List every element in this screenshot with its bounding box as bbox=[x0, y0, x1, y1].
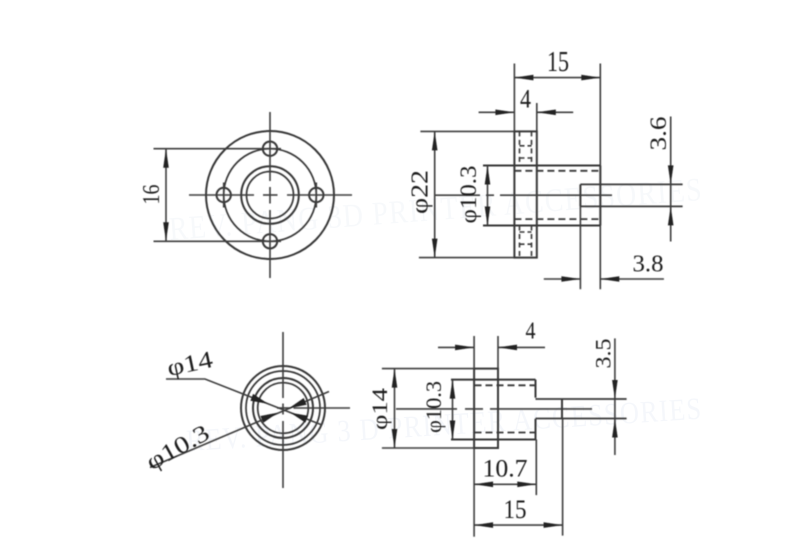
lower side view pin top line bbox=[536, 398, 627, 400]
lower side view body bottom edge bbox=[451, 439, 536, 441]
dim 4 extension line bbox=[536, 103, 538, 131]
front view mounting hole top bbox=[263, 142, 277, 156]
dim 4b arrow left bbox=[455, 345, 474, 351]
lower side view collar left face extension bbox=[473, 336, 475, 369]
side view bore hidden line top bbox=[514, 170, 600, 172]
svg-text:φ22: φ22 bbox=[407, 170, 433, 214]
dim 4 arrow left bbox=[495, 110, 514, 116]
lower view vertical centerline bbox=[282, 332, 284, 398]
lower side view body top edge bbox=[451, 379, 536, 381]
front view mounting hole bottom bbox=[263, 234, 277, 248]
phi10.3 leader arrow a bbox=[260, 413, 278, 423]
dim phi10.3b dimension line bbox=[452, 380, 454, 440]
front view mounting hole right bbox=[309, 188, 323, 202]
dim 15 left extension bbox=[513, 64, 515, 132]
dim 3.5 arrow up bbox=[612, 419, 618, 438]
dim phi14 arrow up bbox=[392, 369, 398, 388]
dim 3.8 dimension line bbox=[544, 278, 581, 280]
dim 15b arrow left bbox=[474, 522, 493, 528]
front view body circle (phi10.3) bbox=[241, 166, 299, 224]
lower view horizontal centerline bbox=[277, 407, 291, 409]
dim 15 arrow left bbox=[514, 75, 533, 81]
dim phi14 arrow down bbox=[392, 429, 398, 448]
dim 3.5 dimension line bbox=[614, 338, 616, 455]
dim phi22 arrow down bbox=[432, 239, 438, 258]
dim phi22 top extension bbox=[420, 130, 514, 132]
dim 10.7 dimension line bbox=[474, 483, 536, 485]
lower front view chamfer circle bbox=[246, 371, 320, 445]
side view flange rectangle bbox=[514, 131, 536, 257]
dim phi22 dimension line bbox=[434, 131, 436, 257]
front view mounting hole left bbox=[217, 188, 231, 202]
side view notch end face bbox=[579, 184, 581, 206]
svg-text:φ10.3: φ10.3 bbox=[456, 166, 481, 224]
side view centerline bbox=[435, 194, 480, 196]
dim 3.6 arrow down bbox=[668, 165, 674, 184]
dim 10.7 arrow right bbox=[517, 482, 536, 488]
lower front view thread circle bbox=[258, 383, 309, 434]
dim 4 dimension line bbox=[479, 111, 515, 113]
leader line phi14 bbox=[166, 379, 322, 425]
side view notch bottom line bbox=[580, 205, 682, 207]
lower front view bore circle (phi10.3) bbox=[253, 378, 313, 438]
lower side view bore hidden top bbox=[475, 384, 536, 386]
side view body bottom edge bbox=[483, 225, 600, 227]
dim 10.7 arrow left bbox=[474, 482, 493, 488]
svg-text:4: 4 bbox=[526, 319, 536, 345]
dim 15b dimension line bbox=[474, 524, 562, 526]
side view flange hole hidden right bbox=[531, 131, 533, 165]
side view bore hidden line bottom bbox=[514, 218, 600, 220]
lower side view collar rectangle bbox=[474, 369, 498, 448]
dim phi14 top extension bbox=[382, 368, 474, 370]
dim phi10.3b arrow up bbox=[450, 380, 456, 399]
lower side view pin end face bbox=[561, 399, 563, 419]
side view flange hole hidden horizontals bbox=[520, 145, 532, 147]
svg-text:10.7: 10.7 bbox=[483, 456, 528, 483]
dim 4b dimension line bbox=[438, 346, 474, 348]
svg-text:15: 15 bbox=[504, 495, 527, 524]
phi14 leader arrow b bbox=[291, 413, 309, 423]
side view body right face bbox=[599, 64, 601, 290]
side view flange hole hidden left bbox=[519, 131, 521, 165]
phi10.3 leader arrow b bbox=[289, 398, 307, 408]
lower side view centerline bbox=[396, 408, 457, 410]
dim 3.5 arrow down bbox=[612, 380, 618, 399]
dim 3.6 arrow up bbox=[668, 206, 674, 225]
front view horizontal centerline bbox=[189, 194, 254, 196]
dim 4b right extension bbox=[497, 336, 499, 369]
dim phi10.3 arrow up bbox=[485, 166, 491, 185]
watermark line 2 bbox=[185, 391, 703, 458]
lower side view pin bottom line bbox=[536, 418, 627, 420]
svg-text:3.6: 3.6 bbox=[646, 117, 671, 151]
leader line phi10.3 bbox=[150, 392, 329, 468]
dim 4 arrow right bbox=[537, 110, 556, 116]
svg-text:3.8: 3.8 bbox=[633, 252, 664, 278]
dim phi14 bottom extension bbox=[382, 447, 474, 449]
dim 15 dimension line bbox=[514, 77, 600, 79]
svg-text:4: 4 bbox=[520, 85, 531, 114]
side view body top edge bbox=[483, 165, 600, 167]
dim 3.8 arrow left bbox=[561, 276, 580, 282]
dim 3.8 left extension bbox=[579, 206, 581, 289]
dim 15b right extension bbox=[562, 419, 564, 536]
dim 3.8 arrow right bbox=[600, 276, 619, 282]
front view thread circle (phi8) bbox=[247, 172, 294, 219]
dim 3.6 dimension line bbox=[670, 117, 672, 242]
svg-text:3.5: 3.5 bbox=[591, 339, 616, 369]
dim phi10.3 dimension line bbox=[487, 166, 489, 226]
dim 10.7 right extension bbox=[535, 440, 537, 496]
front view bolt circle bbox=[224, 149, 317, 242]
right hole tick bbox=[315, 183, 317, 208]
side view notch top line bbox=[580, 183, 682, 185]
lower side view body right face bbox=[535, 380, 537, 398]
phi14 leader arrow a bbox=[250, 394, 268, 404]
dim 16 top extension line bbox=[154, 148, 282, 150]
dim 16 arrow up bbox=[163, 149, 169, 168]
dim 4b arrow right bbox=[498, 345, 517, 351]
dim 15 arrow right bbox=[581, 75, 600, 81]
dim phi22 arrow up bbox=[432, 131, 438, 150]
dim phi14 dimension line bbox=[394, 369, 396, 448]
dim 16 dimension line bbox=[165, 149, 167, 242]
dim phi22 bottom extension bbox=[419, 257, 515, 259]
lower side view bore hidden bottom bbox=[475, 432, 536, 434]
left hole tick bbox=[223, 183, 225, 208]
front view flange outer circle (phi22) bbox=[206, 131, 334, 259]
svg-text:16: 16 bbox=[139, 185, 165, 205]
dim 16 bottom extension line bbox=[154, 240, 282, 242]
dim phi10.3b arrow down bbox=[450, 421, 456, 440]
dim 16 arrow down bbox=[163, 222, 169, 241]
svg-text:φ14: φ14 bbox=[367, 388, 392, 430]
dim 15b arrow right bbox=[544, 522, 563, 528]
svg-text:φ10.3: φ10.3 bbox=[421, 381, 446, 433]
dim phi10.3 arrow down bbox=[485, 207, 491, 226]
svg-text:15: 15 bbox=[547, 46, 569, 78]
watermark line 1 bbox=[168, 172, 704, 248]
lower front view outer circle (phi14) bbox=[241, 366, 325, 450]
front view vertical centerline bbox=[269, 112, 271, 181]
